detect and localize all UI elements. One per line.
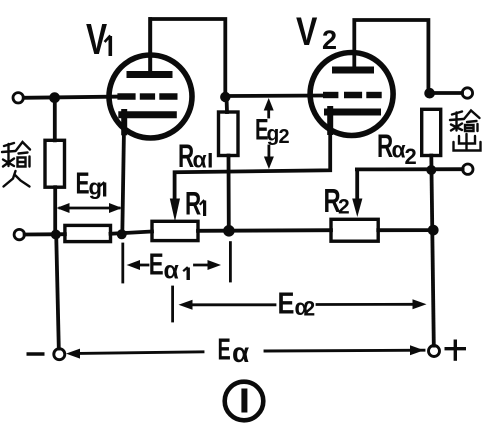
label Ra2 bbox=[377, 128, 417, 169]
potentiometer R1 bbox=[152, 221, 198, 240]
wire rail R1 to R2 bbox=[198, 228, 331, 232]
wire right rail (Ra2 bottom to battery +) bbox=[431, 156, 434, 346]
node rail 1 bbox=[51, 230, 61, 240]
svg-text:E: E bbox=[76, 165, 90, 200]
terminal battery minus bbox=[54, 349, 65, 360]
svg-text:E: E bbox=[218, 331, 231, 367]
dimension Ea bbox=[66, 345, 424, 358]
label Ea1 bbox=[149, 247, 190, 285]
wire R2 wiper bbox=[355, 169, 359, 200]
wire V1 plate to node A bbox=[150, 19, 225, 97]
wire rail R2 to node D bbox=[378, 228, 433, 232]
label 输出 (output) bbox=[450, 111, 481, 151]
label plus bbox=[446, 341, 464, 359]
wire input top to grid V1 bbox=[24, 97, 120, 98]
V1 plate lead bbox=[148, 19, 152, 71]
potentiometer R2 bbox=[331, 219, 378, 241]
V1 plate bar bbox=[130, 71, 169, 78]
node A (V1 plate / Ra1 / V2 grid) bbox=[220, 92, 230, 102]
V2 plate bar bbox=[336, 67, 371, 74]
svg-text:2: 2 bbox=[279, 126, 290, 148]
wire junction down to grid resistor bbox=[53, 98, 57, 141]
label R2 bbox=[324, 183, 350, 220]
V1 cathode bbox=[122, 111, 174, 118]
resistor Ra1 bbox=[219, 112, 239, 156]
arrow R2 wiper bbox=[352, 199, 362, 218]
terminal output top bbox=[462, 88, 472, 98]
label Ea2 bbox=[278, 286, 316, 321]
wire rail resistor to R1 bbox=[111, 232, 153, 234]
label minus bbox=[28, 352, 43, 355]
svg-text:2: 2 bbox=[338, 196, 350, 219]
wire V1 cathode to rail bbox=[122, 128, 124, 234]
svg-text:2: 2 bbox=[322, 25, 337, 55]
svg-text:g: g bbox=[89, 175, 102, 200]
label 输入 (input) bbox=[2, 142, 30, 187]
svg-text:α: α bbox=[193, 147, 207, 173]
svg-text:2: 2 bbox=[405, 144, 417, 169]
label Ra1 bbox=[178, 138, 212, 174]
dimension Ea2 bbox=[173, 287, 427, 321]
node output bottom junction bbox=[426, 165, 436, 175]
svg-text:E: E bbox=[278, 286, 295, 321]
svg-text:R: R bbox=[185, 186, 201, 222]
resistor fixed on rail bbox=[65, 225, 111, 241]
label V2 bbox=[296, 9, 337, 55]
V1 grid dashes bbox=[117, 93, 177, 99]
wire grid resistor to bottom rail bbox=[53, 187, 57, 234]
svg-text:2: 2 bbox=[304, 298, 316, 321]
V2 grid dashes bbox=[323, 92, 382, 98]
svg-text:E: E bbox=[149, 247, 164, 281]
label Eg1 bbox=[76, 165, 107, 200]
wire node B to output top terminal bbox=[430, 91, 462, 95]
svg-text:g: g bbox=[267, 123, 280, 146]
label Ea bbox=[218, 331, 250, 368]
label V1 bbox=[86, 15, 112, 64]
node input junction bbox=[49, 92, 60, 103]
terminal battery plus bbox=[429, 346, 440, 357]
wire node A down to Ra1 bbox=[225, 97, 229, 112]
tube V2 envelope bbox=[310, 53, 393, 136]
node B (V2 plate / Ra2 / output) bbox=[424, 88, 435, 99]
wire node A to V2 grid bbox=[225, 94, 323, 98]
node rail 3 (Ra1 / R1) bbox=[223, 225, 235, 237]
dimension Eg2 bbox=[264, 98, 274, 169]
terminal input top bbox=[13, 93, 23, 103]
label Eg2 bbox=[255, 114, 290, 148]
terminal output bottom bbox=[463, 164, 473, 174]
arrow R1 wiper bbox=[170, 199, 180, 222]
svg-text:V: V bbox=[296, 9, 317, 54]
wire bottom rail bbox=[25, 232, 65, 236]
svg-text:α: α bbox=[164, 257, 180, 285]
label R1 bbox=[185, 186, 206, 222]
wire V2 cathode down and left to R1 wiper bbox=[175, 112, 331, 200]
figure number 1 bbox=[225, 382, 264, 421]
terminal input bottom bbox=[14, 229, 24, 239]
wire Ra1 bottom to rail node bbox=[227, 156, 231, 231]
wire rail to battery minus bbox=[56, 235, 59, 349]
wire output bottom / R2 wiper line bbox=[357, 167, 463, 171]
resistor grid-leak bbox=[45, 140, 65, 187]
tube V1 envelope bbox=[109, 55, 192, 138]
dimension Eg1 bbox=[57, 203, 123, 213]
node rail 2 (V1 cathode) bbox=[117, 229, 127, 239]
resistor Ra2 bbox=[422, 109, 441, 155]
V2 cathode bbox=[328, 109, 378, 116]
wire V2 plate to node B bbox=[354, 20, 428, 93]
svg-text:α: α bbox=[232, 337, 249, 368]
svg-text:V: V bbox=[86, 15, 107, 64]
node rail 4 (R2 / battery +) bbox=[428, 225, 439, 236]
dimension Ea1 bbox=[123, 243, 231, 282]
